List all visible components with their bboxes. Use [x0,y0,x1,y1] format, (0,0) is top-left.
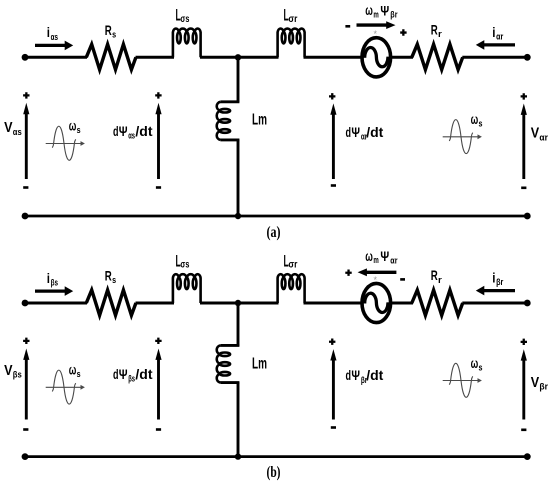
svg-text:i: i [47,270,50,286]
svg-text:σr: σr [288,14,297,25]
minus sign right of EMF [400,278,405,281]
wire: EMF source to Rr [390,302,413,305]
svg-text:Ψ: Ψ [119,123,128,139]
node: bottom-right terminal [524,453,531,460]
wire: Rs to Lss [136,56,175,59]
node: bottom-right terminal [524,213,531,220]
svg-text:/dt: /dt [366,124,383,140]
svg-text:d: d [113,366,119,382]
EMF arrow (points right) [357,23,388,26]
sine source symbol ωs (rotor side) [443,136,479,138]
svg-text:V: V [4,363,13,379]
svg-text:d: d [346,367,352,383]
flux arrow dΨαs/dt [157,113,160,179]
svg-text:V: V [531,126,540,142]
wire: center node down to Lm [237,57,240,102]
voltage arrow Vαs [25,113,28,179]
wire: Lss to Lsr across center node [200,302,279,305]
current arrow iβs [35,290,66,293]
svg-text:s: s [479,119,483,130]
plus terminal dΨβr/dt [329,339,335,345]
svg-text:σs: σs [180,14,189,25]
plus terminal dΨαs/dt [155,92,161,98]
wire: rotor top-right segment [462,56,527,59]
minus terminal Vαr [521,187,526,190]
node: bottom center junction [235,453,241,459]
svg-text:σs: σs [180,260,189,271]
svg-text:s: s [112,275,116,286]
node: bottom-left terminal [22,213,29,220]
svg-text:d: d [113,123,119,139]
AC source: rotational EMF [362,283,391,322]
wire: Lm down to bottom rail [220,138,239,141]
svg-text:s: s [77,125,81,136]
voltage arrow Vαr [522,114,525,179]
svg-text:ω: ω [69,117,77,133]
svg-text:βs: βs [128,374,135,385]
svg-text:Ψ: Ψ [351,367,360,383]
wire: Rs to Lss [136,302,175,305]
flux arrow dΨβs/dt [157,359,160,420]
svg-text:αr: αr [390,255,397,266]
current arrow iβr [483,289,515,292]
wire: Lm down to bottom rail [220,381,239,384]
plus sign right of EMF [400,29,406,35]
plus sign left of EMF [345,270,351,276]
svg-text:R: R [105,22,112,38]
svg-text:βs: βs [13,370,22,381]
wire: EMF source to Rr [390,56,413,59]
wire: Lsr to EMF source [304,302,364,305]
plus terminal Vβr [521,339,527,345]
svg-text:d: d [346,124,352,140]
minus terminal dΨαs/dt [156,186,161,189]
plus terminal Vαr [521,93,527,99]
svg-text:r: r [438,29,442,40]
sine source symbol ωs (stator side) [46,386,82,388]
inductor Lσs stator leakage [173,29,201,58]
svg-text:/dt: /dt [366,367,383,383]
voltage arrow Vβr [522,360,525,420]
node: center junction top [235,300,241,306]
svg-text:(b): (b) [267,464,281,481]
minus terminal Vβr [521,429,526,432]
plus terminal dΨαr/dt [329,93,335,99]
node: stator terminal top [22,300,29,307]
node: bottom center junction [235,213,241,219]
wire: Lsr to EMF source [304,56,364,59]
svg-text:V: V [4,120,13,136]
svg-text:R: R [431,267,438,283]
svg-text:βr: βr [539,382,548,393]
svg-text:αs: αs [13,127,22,138]
svg-text:/dt: /dt [135,366,152,382]
wire: rotor top-right segment [462,302,527,305]
svg-text:σr: σr [288,260,297,271]
svg-text:ω: ω [471,355,479,371]
minus terminal Vβs [23,428,28,431]
plus terminal Vβs [23,338,29,344]
minus terminal dΨβs/dt [156,428,161,431]
svg-text:βr: βr [390,10,397,21]
flux arrow dΨβr/dt [332,360,335,420]
minus terminal dΨβr/dt [331,426,336,429]
resistor Rr rotor [412,290,463,315]
svg-text:*: * [374,275,378,285]
svg-text:V: V [531,375,540,391]
svg-text:R: R [431,22,438,38]
wire: Lss to Lsr across center node [200,56,279,59]
svg-text:Ψ: Ψ [380,2,389,18]
svg-text:ω: ω [365,2,373,18]
svg-text:βr: βr [496,277,503,288]
svg-text:αs: αs [51,32,58,43]
resistor Rs stator [86,44,136,69]
voltage arrow Vβs [25,359,28,420]
current arrow iαr [483,43,515,46]
svg-text:ω: ω [365,248,373,264]
inductor Lσr rotor leakage [278,29,305,58]
minus terminal Vαs [23,186,28,189]
svg-text:s: s [77,369,81,380]
svg-text:*: * [374,29,378,39]
sine source symbol ωs (rotor side) [443,380,479,382]
svg-text:i: i [492,270,495,286]
svg-text:Lm: Lm [252,355,267,372]
resistor Rs stator [86,290,136,315]
svg-text:i: i [47,24,50,40]
svg-text:ω: ω [471,111,479,127]
svg-text:Ψ: Ψ [380,248,389,264]
svg-text:i: i [492,24,495,40]
EMF arrow (points left) [366,271,397,274]
wire: stator top-left segment [25,302,87,305]
svg-text:Ψ: Ψ [119,366,128,382]
svg-text:αs: αs [128,130,135,141]
svg-text:/dt: /dt [135,123,152,139]
node: rotor terminal top [524,54,531,61]
minus terminal dΨαr/dt [331,184,336,187]
svg-text:m: m [373,9,378,20]
node: stator terminal top [22,54,29,61]
svg-text:βs: βs [51,278,58,289]
resistor Rr rotor [412,44,463,69]
wire: bottom rail [25,215,527,218]
wire: bottom rail [25,455,527,458]
wire: stator top-left segment [25,56,87,59]
node: bottom-left terminal [22,453,29,460]
svg-text:r: r [438,275,442,286]
svg-text:R: R [105,268,112,284]
inductor Lm magnetizing [217,345,221,382]
node: center junction top [235,54,241,60]
inductor Lσr rotor leakage [278,274,305,303]
svg-text:m: m [373,255,378,266]
inductor Lσs stator leakage [173,274,201,303]
svg-text:Ψ: Ψ [351,124,360,140]
svg-text:αr: αr [539,132,548,143]
wire: center node down to Lm [237,303,240,346]
plus terminal Vαs [23,92,29,98]
svg-text:ω: ω [69,362,77,378]
plus terminal dΨβs/dt [155,338,161,344]
sine source symbol ωs (stator side) [46,143,82,145]
AC source: rotational EMF [362,38,391,77]
node: rotor terminal top [524,300,531,307]
inductor Lm magnetizing [217,102,221,140]
svg-text:αr: αr [496,32,503,43]
svg-text:s: s [479,362,483,373]
current arrow iαs [35,44,66,47]
svg-text:(a): (a) [267,224,281,241]
flux arrow dΨαr/dt [332,114,335,179]
svg-text:s: s [112,30,116,41]
minus sign left of EMF [345,25,350,28]
svg-text:Lm: Lm [252,111,267,128]
